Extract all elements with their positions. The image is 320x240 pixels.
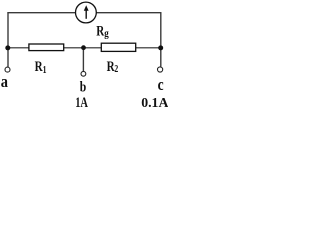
label R1 [35, 57, 47, 75]
wire middle rail left segment [8, 47, 29, 49]
wire top-right horizontal [96, 12, 161, 14]
resistor R2 box [101, 43, 135, 51]
svg-text:b: b [80, 78, 86, 94]
wire lead terminal b [82, 48, 84, 71]
node dot left [5, 45, 10, 50]
svg-text:c: c [158, 77, 164, 94]
node dot right [158, 45, 163, 50]
svg-text:a: a [1, 73, 8, 91]
terminal b circle [81, 71, 86, 76]
wire left vertical [7, 12, 9, 67]
node b dot [81, 45, 86, 50]
current source arrow [84, 5, 89, 19]
wire node b to R2 [83, 47, 101, 49]
wire R2 to node c [136, 47, 161, 49]
current source U circle [76, 2, 97, 23]
svg-text:0.1A: 0.1A [141, 95, 168, 109]
wire top-left horizontal [7, 12, 75, 14]
resistor R1 box [29, 44, 64, 51]
wire right vertical [160, 12, 162, 66]
svg-text:2: 2 [114, 63, 118, 74]
svg-text:g: g [104, 28, 109, 40]
label R2 [107, 57, 119, 74]
svg-text:1A: 1A [75, 94, 88, 109]
svg-text:1: 1 [43, 64, 47, 75]
terminal c circle [158, 67, 163, 72]
svg-text:R: R [96, 22, 104, 39]
terminal a circle [5, 67, 10, 72]
wire R1 to node b [64, 47, 84, 49]
svg-text:R: R [35, 57, 43, 74]
label Rg [96, 22, 109, 40]
